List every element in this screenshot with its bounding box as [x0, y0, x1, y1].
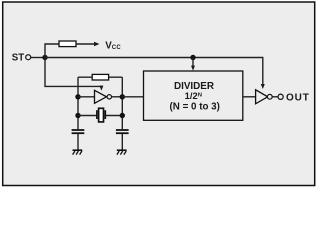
crystal Y1 [97, 108, 105, 122]
ground GND1 [73, 150, 83, 154]
wire right rail [121, 77, 123, 129]
capacitor C1 [72, 130, 85, 133]
node ST [12, 52, 31, 63]
svg-text:ST: ST [12, 52, 24, 63]
ground GND2 [117, 150, 127, 154]
junction ST node [42, 55, 47, 60]
wire junction up to pull-up resistor [45, 44, 59, 58]
inverter U3 output buffer [256, 90, 273, 104]
wire resistor to Vcc arrow [76, 42, 100, 46]
divider block U2 [144, 71, 243, 120]
svg-text:OUT: OUT [286, 93, 310, 104]
wire inverter output to right rail [112, 96, 123, 98]
capacitor C2 [116, 130, 129, 133]
wire divider output to output inverter [243, 96, 256, 98]
wire inverter to OUT terminal [272, 96, 278, 98]
wire ST enable to oscillator inverter (down, right, arrow) [45, 58, 103, 91]
wire inverter input [78, 96, 95, 98]
wire ST line to output inverter (long horizontal, down, arrow) [45, 58, 265, 90]
node OUT [278, 93, 310, 104]
svg-text:(N = 0 to 3): (N = 0 to 3) [170, 101, 220, 112]
wire feedback loop top [78, 76, 122, 78]
wire crystal right lead [106, 115, 122, 117]
junction divider control tap [190, 55, 195, 60]
junction right rail at inverter output [120, 94, 125, 99]
junction right rail at crystal [120, 113, 125, 118]
junction left rail at crystal [75, 113, 80, 118]
wire crystal left lead [78, 115, 96, 117]
wire C2 to ground [121, 134, 123, 150]
resistor R2 feedback [92, 74, 108, 80]
wire divider control arrow [191, 58, 195, 71]
inverter U1 oscillator [95, 90, 112, 103]
wire ST terminal to junction [31, 57, 45, 59]
resistor R1 pull-up [59, 41, 76, 47]
junction left rail at inverter input [75, 94, 80, 99]
wire oscillator output to divider input [122, 96, 143, 98]
wire C1 to ground [77, 134, 79, 150]
wire left rail [77, 77, 79, 129]
